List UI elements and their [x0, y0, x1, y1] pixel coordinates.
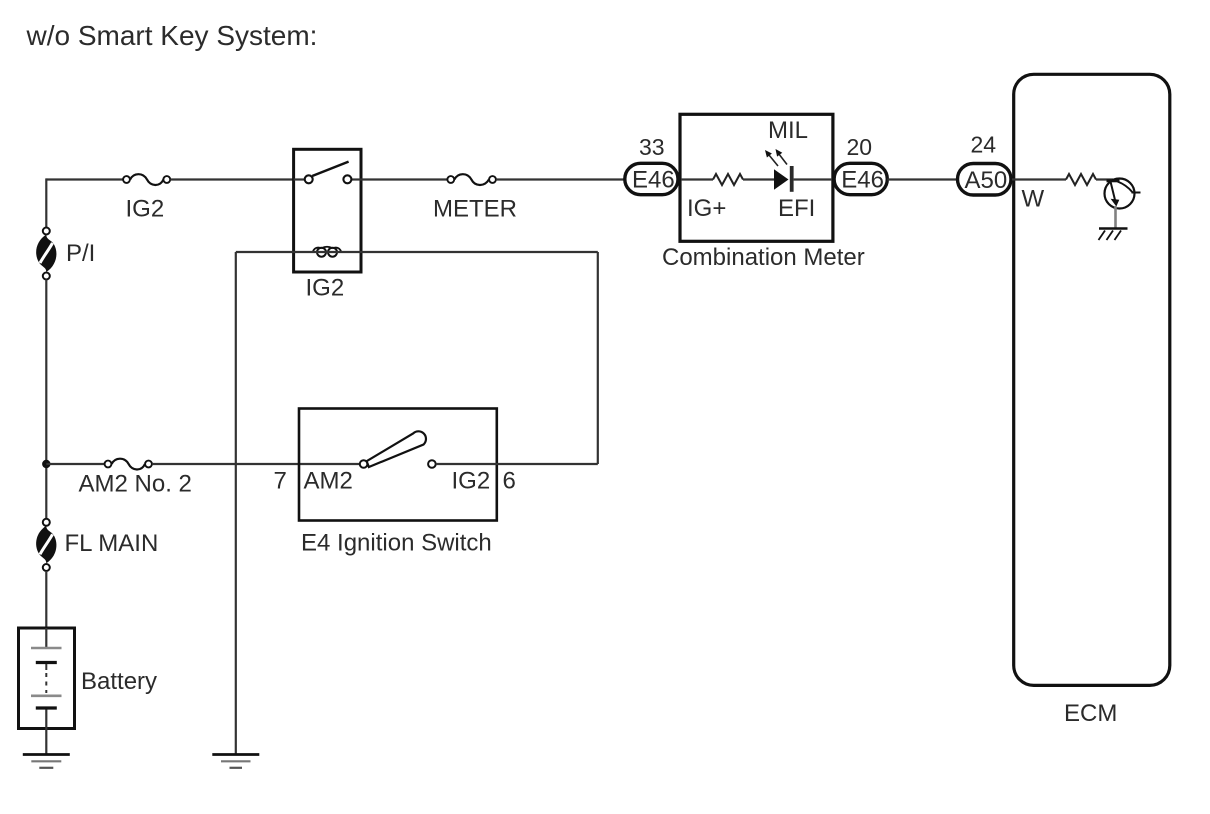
- relay switch lever: [312, 162, 348, 176]
- ignition switch box E4: [299, 409, 497, 521]
- svg-text:IG2: IG2: [306, 275, 345, 302]
- wire: middle vertical to ground: [235, 252, 237, 754]
- combination meter box: [680, 114, 833, 241]
- wire: meter internal lead left: [681, 178, 713, 180]
- svg-text:Battery: Battery: [81, 668, 157, 695]
- svg-text:IG2: IG2: [452, 468, 491, 495]
- wire: E46 pin20 to A50: [887, 178, 956, 180]
- wire: resistor to transistor: [1096, 178, 1113, 180]
- wire: fuse to ignition switch contact: [152, 463, 360, 465]
- svg-text:6: 6: [503, 468, 516, 495]
- switch contact IG2: [428, 460, 436, 468]
- connector E46 pin 20: [834, 163, 887, 194]
- svg-text:33: 33: [639, 134, 665, 160]
- wire: relay coil line: [236, 251, 598, 253]
- svg-text:AM2: AM2: [304, 468, 353, 495]
- wire: A50 into ECM to resistor: [1012, 178, 1066, 180]
- svg-text:ECM: ECM: [1064, 700, 1117, 727]
- svg-text:7: 7: [274, 468, 287, 495]
- svg-text:E4 Ignition Switch: E4 Ignition Switch: [301, 530, 492, 557]
- wire: left vertical top segment: [45, 178, 47, 227]
- wire: top wire fuse IG2 to relay: [170, 178, 293, 180]
- svg-text:E46: E46: [841, 166, 884, 193]
- wire: top main wire left segment: [46, 178, 123, 180]
- wire: right vertical (coil to ignition switch): [597, 252, 599, 464]
- svg-text:IG2: IG2: [126, 196, 165, 223]
- relay switch contact left: [305, 175, 313, 183]
- wire: AM2 line from junction to fuse: [46, 463, 104, 465]
- wire: relay internal leads: [294, 178, 306, 180]
- fusible link P/I: [36, 228, 56, 280]
- svg-text:20: 20: [847, 134, 873, 160]
- switch contact AM2: [360, 460, 368, 468]
- relay switch contact right: [343, 175, 351, 183]
- battery box: [19, 628, 75, 729]
- fusible link FL MAIN: [36, 519, 56, 571]
- svg-text:Combination Meter: Combination Meter: [662, 244, 865, 271]
- connector A50: [958, 164, 1012, 196]
- fuse AM2 No. 2: [105, 459, 152, 470]
- LED arrow 1: [765, 150, 778, 166]
- transistor (ECM output): [1105, 179, 1141, 209]
- battery internals: [31, 628, 62, 708]
- wire: transistor emitter lead: [1114, 206, 1117, 228]
- LED cathode bar: [790, 166, 794, 192]
- svg-text:P/I: P/I: [66, 240, 95, 267]
- wire: battery to ground: [45, 710, 47, 754]
- wire: meter internal lead right: [794, 178, 832, 180]
- svg-text:IG+: IG+: [687, 195, 726, 222]
- wire: top wire relay to METER fuse: [361, 178, 447, 180]
- node junction (battery feed): [42, 460, 50, 468]
- svg-text:EFI: EFI: [778, 195, 815, 222]
- svg-text:MIL: MIL: [768, 117, 808, 144]
- svg-text:A50: A50: [965, 167, 1008, 194]
- fuse IG2: [123, 174, 170, 185]
- svg-text:w/o Smart Key System:: w/o Smart Key System:: [26, 20, 318, 51]
- svg-text:24: 24: [971, 132, 997, 158]
- wire: meter internal lead mid: [743, 178, 774, 180]
- wire: left vertical middle segment: [45, 280, 47, 519]
- svg-text:W: W: [1022, 186, 1045, 213]
- LED arrow 2: [776, 149, 788, 165]
- resistor (ECM): [1066, 174, 1096, 185]
- fuse METER: [447, 174, 496, 185]
- relay coil: [313, 247, 342, 257]
- ground (middle): [212, 755, 259, 768]
- wire: switch contact to box edge and beyond: [436, 463, 598, 465]
- wire: left vertical to battery: [45, 571, 47, 628]
- svg-text:FL MAIN: FL MAIN: [65, 530, 159, 557]
- svg-text:AM2 No. 2: AM2 No. 2: [79, 471, 192, 498]
- wire: top wire METER fuse to E46: [496, 178, 625, 180]
- resistor (combination meter): [713, 174, 743, 185]
- ground (battery): [23, 755, 70, 768]
- svg-text:E46: E46: [632, 166, 675, 193]
- switch lever: [367, 431, 426, 467]
- LED MIL diode: [774, 169, 789, 190]
- ECM box: [1014, 74, 1170, 685]
- svg-text:METER: METER: [433, 196, 517, 223]
- connector E46 pin 33: [625, 163, 678, 194]
- relay IG2 box: [294, 149, 361, 272]
- ground (ECM, hatched): [1099, 229, 1128, 241]
